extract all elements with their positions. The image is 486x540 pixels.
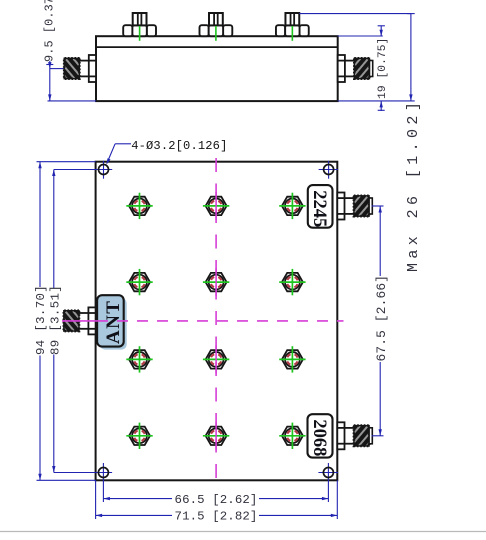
hex screw r3c1 [126, 346, 152, 372]
dimension 66.5 [2.62] [103, 493, 328, 507]
sheet border line [0, 531, 486, 533]
hex screw r4c2 [203, 422, 229, 450]
mounting hole bl [54, 463, 112, 502]
svg-text:2245: 2245 [309, 190, 329, 227]
svg-text:Max 26 [1.02]: Max 26 [1.02] [405, 98, 422, 272]
hex screw r4c1 [126, 423, 152, 449]
dimension 67.5 [2.66] [372, 206, 390, 436]
hex screw r1c2 [203, 192, 229, 220]
svg-text:94 [3.70]: 94 [3.70] [34, 285, 48, 355]
label 2068 [308, 414, 333, 457]
svg-text:4-Ø3.2[0.126]: 4-Ø3.2[0.126] [131, 139, 227, 153]
svg-text:9.5 [0.37]: 9.5 [0.37] [42, 0, 56, 62]
SMA connector ANT (left) [64, 307, 96, 334]
hex screw r2c2 [203, 268, 229, 296]
svg-text:71.5 [2.82]: 71.5 [2.82] [175, 510, 258, 524]
SMA connector top 1 [123, 13, 156, 41]
hex screw r1c1 [126, 193, 152, 219]
hex screw r4c3 [279, 423, 305, 449]
svg-text:2068: 2068 [309, 419, 329, 456]
SMA connector top 2 [200, 13, 233, 41]
svg-text:ANT: ANT [103, 300, 124, 344]
callout 4-dia 3.2 mounting holes [106, 139, 227, 165]
svg-text:67.5 [2.66]: 67.5 [2.66] [374, 275, 389, 362]
label 2245 [308, 185, 333, 228]
SMA connector top 3 [276, 13, 309, 41]
dimension 19 [0.75] [338, 26, 390, 111]
hex screw r2c1 [126, 269, 152, 295]
SMA connector port 2068 (right bottom) [337, 422, 372, 449]
label ANT [97, 295, 127, 349]
svg-text:66.5 [2.62]: 66.5 [2.62] [175, 493, 258, 507]
dimension 9.5 [0.37] [42, 0, 96, 101]
mounting hole tr [319, 161, 338, 179]
SMA connector left (top view) [64, 55, 96, 82]
dimension 71.5 [2.82] [96, 480, 338, 523]
svg-text:19 [0.75]: 19 [0.75] [377, 38, 389, 99]
hex screw r1c3 [279, 193, 305, 219]
dimension Max 26 [1.02] [299, 14, 422, 272]
SMA connector port 2245 (right top) [337, 193, 372, 220]
svg-text:89 [3.51]: 89 [3.51] [49, 285, 63, 355]
hex screw r2c3 [279, 269, 305, 295]
dimension 89 [3.51] [49, 170, 63, 473]
vertical centerline [215, 158, 217, 484]
dimension 94 [3.70] [34, 162, 96, 481]
housing front plate [96, 162, 338, 481]
mounting hole br [318, 463, 338, 502]
horizontal centerline [62, 320, 344, 322]
housing body (top view) [96, 36, 338, 101]
SMA connector right (top view) [338, 55, 373, 82]
hex screw r3c3 [279, 346, 305, 372]
hex screw r3c2 [203, 345, 229, 373]
mounting hole tl [54, 161, 112, 179]
